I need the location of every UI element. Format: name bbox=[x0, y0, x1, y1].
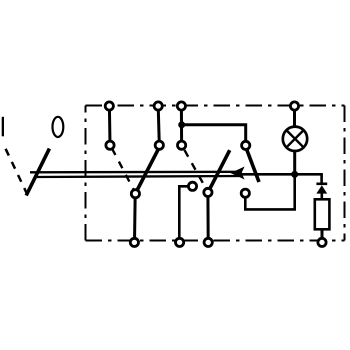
pivot P3 bbox=[204, 188, 212, 196]
wire lamp to junction J2 bbox=[293, 150, 296, 174]
contact B bbox=[155, 141, 163, 149]
wire pivot P2 to bottom terminal B1 bbox=[133, 194, 137, 243]
junction dot J1 bbox=[178, 121, 185, 128]
bottom terminal B1 bbox=[130, 238, 138, 246]
diode D1 bbox=[316, 184, 327, 200]
bottom terminal B3 bbox=[204, 238, 212, 246]
junction dot J2 bbox=[291, 171, 298, 178]
contact C bbox=[178, 141, 186, 149]
wire junction to contact D bbox=[182, 125, 246, 145]
wire T1 stem bbox=[108, 106, 112, 145]
terminal T3 bbox=[177, 102, 185, 110]
lamp L1 bbox=[283, 127, 307, 151]
pivot P2 bbox=[131, 190, 139, 198]
wire main line to diode branch bbox=[240, 174, 322, 184]
terminal T4 bbox=[290, 102, 298, 110]
pole 2 dashed contact line bbox=[112, 148, 134, 191]
wire resistor to bottom terminal B4 bbox=[321, 229, 324, 242]
arrowhead on linkage bbox=[231, 167, 245, 180]
bottom terminal B4 bbox=[318, 238, 326, 246]
wire U-link from contact PR to J2 bbox=[245, 174, 294, 209]
mechanical linkage double line bbox=[30, 171, 242, 174]
resistor R1 bbox=[315, 199, 330, 229]
contact A bbox=[106, 141, 114, 149]
pole 3 dashed contact line bbox=[185, 150, 207, 189]
wire L-link from pivot PL to bottom terminal B2 bbox=[179, 186, 192, 242]
contact D bbox=[242, 141, 250, 149]
wire T3 stem bbox=[180, 106, 183, 145]
pole 3 blade bbox=[209, 150, 229, 190]
terminal T1 bbox=[105, 102, 113, 110]
wire pivot P3 to bottom terminal B3 bbox=[206, 192, 209, 242]
wire T2 stem bbox=[158, 106, 159, 145]
actuator lever dashed (position I) bbox=[6, 149, 27, 193]
pole 2 blade bbox=[136, 149, 158, 192]
actuator lever solid (position 0) bbox=[26, 149, 49, 196]
pivot PL bbox=[188, 182, 196, 190]
bottom terminal B2 bbox=[176, 238, 184, 246]
wire T4 stem to lamp bbox=[293, 106, 296, 128]
label I (position marker) bbox=[2, 117, 4, 137]
switch housing outline (dash-dot box) bbox=[86, 106, 345, 241]
pivot PR bbox=[241, 189, 249, 197]
pole 4 blade bbox=[247, 150, 259, 182]
terminal T2 bbox=[154, 102, 162, 110]
label 0 (position marker) bbox=[53, 117, 64, 137]
